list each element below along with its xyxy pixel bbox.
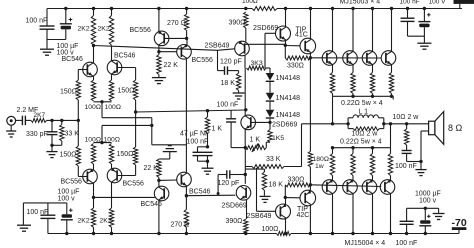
wire emitter resistor join bottom — [94, 142, 112, 144]
svg-text:100Ω: 100Ω — [105, 104, 121, 111]
label 100 v — [57, 50, 75, 57]
node bottom rail / output #4 — [389, 232, 392, 235]
node bottom rail / 100nF right — [405, 232, 408, 235]
resistor 100R Q3 emitter — [91, 144, 95, 165]
node Q7 collector / Q8 base — [157, 179, 160, 182]
node top rail / 2K2 right — [110, 7, 113, 10]
transistor MJ15003 output #4 — [381, 51, 396, 66]
wire bottom emitter bus — [333, 147, 391, 149]
ground 18K lower — [260, 196, 271, 202]
node L1 right — [382, 122, 385, 125]
node bottom bus / riser — [331, 146, 334, 149]
resistor 18K lower — [262, 172, 266, 190]
svg-text:330Ω: 330Ω — [288, 177, 305, 184]
ground feedback caps — [202, 168, 214, 174]
potentiometer 1K wiper arrow — [252, 145, 258, 152]
ground input network — [46, 152, 57, 158]
node bias collector / H1 — [244, 108, 247, 111]
wire -70 to bottom rail — [458, 230, 460, 234]
wire 1K5 top lead — [269, 122, 271, 129]
node H1 / 1K — [206, 109, 209, 112]
wire ground stem top-left — [46, 40, 48, 49]
svg-text:270 Ω: 270 Ω — [167, 20, 186, 27]
wire VAS base link — [218, 49, 235, 51]
label 150R lower-right — [117, 151, 134, 158]
wire output lower #2 emitter lead — [352, 176, 354, 181]
label 150R upper-right — [118, 88, 135, 95]
svg-text:10Ω 2 w: 10Ω 2 w — [352, 130, 379, 137]
node top rail / driver collector — [284, 7, 287, 10]
transistor Q3 BC556 input pair lower — [83, 169, 98, 184]
transistor Q8 BC546 current source lower — [177, 172, 192, 187]
wire bottom supply rail left segment — [48, 233, 277, 235]
svg-text:2SB649: 2SB649 — [205, 43, 230, 50]
wire electrolytic bottom lead — [65, 29, 67, 39]
wire VAS lower emitter to 390R — [246, 199, 248, 219]
label 10R 2w zobel — [393, 114, 420, 121]
wire output lower #4 collector to rail — [390, 194, 392, 234]
resistor 150R lower-right — [133, 147, 137, 165]
svg-text:10Ω 2 w: 10Ω 2 w — [393, 114, 420, 121]
label TIP lower — [297, 206, 308, 213]
wire Q4 top to 100R — [111, 164, 113, 169]
transistor MJ15003 output #2 — [343, 51, 358, 66]
wire zobel R to C — [406, 145, 408, 151]
wire inverted ground stem — [169, 152, 171, 159]
transistor Q2 BC546 input pair — [107, 60, 122, 75]
svg-text:1w: 1w — [315, 163, 324, 170]
wire bottom VAS base wire — [186, 194, 235, 197]
capacitor 100uF 100v bottom-left electrolytic — [61, 208, 73, 219]
label 100 nF top-left — [26, 18, 48, 25]
inductor L1 — [353, 115, 379, 118]
wire +70 stub to rail — [459, 4, 461, 9]
node TIP41C emitter / base bus — [309, 56, 312, 59]
transistor 2SB649 driver lower — [276, 204, 291, 219]
svg-text:330Ω: 330Ω — [287, 63, 304, 70]
wire Q3 collector down — [93, 183, 95, 197]
svg-text:BC546: BC546 — [189, 188, 211, 195]
wire 2K2 to Q2 top — [111, 45, 113, 61]
wire Q2 emitter to 100R — [111, 74, 113, 80]
svg-text:1N4148: 1N4148 — [276, 95, 301, 102]
label 1N4148 D1 — [276, 75, 301, 82]
wire to input ground — [51, 145, 53, 151]
node top rail / TIP41C — [309, 7, 312, 10]
label 100nF bias — [217, 101, 239, 108]
wire rail to 100nF top-right — [407, 9, 409, 19]
wire VAS emitter down — [244, 55, 246, 68]
node input A — [50, 119, 53, 122]
terminal -70 bar — [452, 227, 467, 230]
label 2K2 bottom-left — [78, 218, 90, 225]
label BC546 Q7 — [141, 201, 163, 208]
label TIP — [296, 26, 307, 33]
transistor MJ15004 output #1 — [322, 179, 337, 194]
wire 1K bottom lead — [207, 133, 209, 147]
wire cap bottoms join top-left — [47, 39, 66, 41]
resistor 0.22R emitter lower #3 — [370, 154, 374, 176]
wire base column right upper — [135, 68, 137, 81]
ground 22K top — [152, 78, 166, 84]
connector input RCA jack — [7, 116, 16, 125]
svg-text:100Ω: 100Ω — [262, 226, 279, 233]
wire 270R bottom lead — [186, 31, 188, 39]
svg-text:100 nF: 100 nF — [26, 18, 48, 25]
wire 18K to ground — [238, 91, 240, 93]
label 100nF upper small — [0, 0, 1, 1]
wire node to 330pF — [51, 120, 53, 131]
wire bottom bus riser to output — [390, 124, 392, 148]
resistor 2K2 bottom-left — [91, 208, 95, 227]
resistor 33K input — [60, 125, 64, 142]
node bottom rail / driver lower — [284, 232, 287, 235]
svg-text:1K5: 1K5 — [272, 135, 284, 142]
label 120 pF lower — [218, 180, 240, 187]
resistor 2K2 bottom-right — [109, 208, 113, 227]
label 2SD669 bias — [272, 122, 297, 129]
node input at base column — [77, 119, 80, 122]
label 100R Q4 — [104, 137, 120, 144]
label 100nF zobel — [395, 163, 417, 170]
resistor 150R upper-right — [133, 80, 137, 100]
wire jack to ground — [10, 125, 12, 131]
node bottom pair tail — [100, 141, 103, 144]
label 100 v bottom-left — [58, 195, 76, 202]
wire output #2 emitter lead — [352, 65, 354, 73]
wire ground stem top-right — [423, 36, 425, 42]
resistor 270R top — [184, 14, 188, 31]
wire bottom supply rail right segment — [291, 233, 459, 235]
label 22K bottom — [144, 165, 159, 172]
wire L1 bottom left stub — [348, 128, 353, 130]
ground input jack — [6, 131, 16, 137]
wire bottom base bus — [310, 185, 381, 187]
label 100 nF bottom-left — [27, 209, 49, 216]
wire ground stem bottom-right — [438, 208, 440, 213]
label -70 terminal — [452, 217, 467, 229]
svg-text:390Ω: 390Ω — [226, 218, 243, 225]
node input B — [60, 119, 63, 122]
resistor 10R 2w zobel — [404, 129, 408, 145]
capacitor 100nF bottom-right — [400, 221, 414, 233]
svg-text:2K2: 2K2 — [98, 26, 110, 33]
svg-text:BC556: BC556 — [192, 57, 214, 64]
node lower emitter bus #3 — [371, 146, 374, 149]
wire feedback line H1 — [136, 110, 246, 112]
wire L1 right vertical — [383, 118, 385, 129]
svg-text:150Ω: 150Ω — [60, 89, 77, 96]
wire 390R to VAS collector — [245, 28, 247, 42]
wire top pair collector feed to VAS — [94, 46, 218, 51]
wire CCS collector bus vertical — [185, 58, 187, 172]
wire 2K2 br top — [111, 182, 113, 208]
wire 100nF bias bottom corner — [231, 147, 245, 149]
terminal +70 bar (clipped) — [454, 0, 474, 4]
transistor Q6 BC556 current source — [177, 44, 192, 59]
wire driver bias vertical upper — [309, 58, 311, 152]
wire 0.22R #4 to bus — [391, 94, 393, 97]
wire bias drop to lower driver base — [256, 168, 258, 212]
wire Q4 base lead — [117, 175, 136, 177]
wire output lower #4 emitter lead — [390, 176, 392, 181]
resistor 0.22R emitter #2 — [351, 73, 355, 94]
wire output lower #1 emitter lead — [332, 176, 334, 181]
wire L1 bottom right stub — [379, 128, 383, 130]
capacitor 47uF NP — [193, 147, 203, 161]
wire base column right lower — [135, 165, 137, 176]
resistor 18K upper — [236, 73, 240, 91]
wire top base bus — [310, 57, 381, 59]
transistor 2SD669 VAS lower — [236, 186, 251, 201]
svg-text:8 Ω: 8 Ω — [448, 123, 463, 133]
wire caps bottom bus — [198, 160, 208, 162]
label 2SD669 VAS lower — [222, 202, 247, 209]
wire lower driver base lead — [257, 210, 276, 212]
wire Q6 base lead — [159, 51, 177, 53]
label 390R bottom — [226, 218, 243, 225]
wire 2K7 to node — [47, 119, 79, 121]
label 2K2 bottom-right — [100, 218, 112, 225]
capacitor 330pF — [47, 132, 58, 146]
svg-text:100Ω: 100Ω — [85, 104, 101, 111]
svg-text:1 K: 1 K — [250, 136, 261, 143]
label 330 pF — [26, 131, 48, 138]
node bottom rail / output #2 — [351, 232, 354, 235]
node bottom rail / 2K2 right — [110, 232, 113, 235]
resistor 100R bottom rail series — [277, 232, 292, 236]
resistor 270R bottom — [184, 210, 188, 228]
wire VAS lower base wire segment — [217, 194, 219, 196]
node 120pF lower / VAS collector — [244, 173, 247, 176]
ground 18K upper — [233, 93, 245, 99]
node 330pF 33K junction — [50, 144, 53, 147]
wire 0.22R #1 to bus — [332, 94, 334, 97]
svg-text:2SD669: 2SD669 — [222, 202, 247, 209]
wire output #2 collector to rail — [352, 9, 354, 52]
capacitor 120pF lower — [218, 170, 245, 179]
label 100R Q1 — [85, 104, 101, 111]
wire base column left upper — [77, 70, 79, 81]
wire electrolytic top lead bottom-left — [66, 203, 68, 214]
wire base column left middle — [77, 100, 79, 146]
svg-text:3K3: 3K3 — [251, 60, 263, 67]
wire TIP41C emitter down — [309, 53, 311, 58]
wire TIP42C emitter up — [309, 185, 311, 191]
wire zobel top lead — [406, 124, 408, 129]
wire driver emitter to 330R — [284, 45, 286, 58]
svg-text:2K2: 2K2 — [78, 218, 90, 225]
wire output #3 collector to rail — [372, 9, 374, 52]
transistor TIP42C driver lower — [300, 190, 316, 206]
wire 22K top lead — [158, 52, 160, 55]
wire base column right middle — [135, 100, 137, 147]
wire 180R to lower node — [309, 167, 311, 185]
label 2SD669 driver — [253, 25, 278, 32]
wire 18K lower to ground — [263, 190, 265, 196]
wire 18K lower top lead — [263, 169, 265, 172]
wire 1K top lead — [207, 111, 209, 117]
label BC546 Q8 — [189, 188, 211, 195]
transistor Q4 BC556 input pair lower — [107, 168, 122, 183]
wire 330pF/33K join — [52, 144, 62, 146]
svg-text:2SD669: 2SD669 — [272, 122, 297, 129]
resistor 0.22R emitter lower #4 — [388, 154, 392, 176]
capacitor 100nF bias — [226, 110, 236, 147]
label 3K3 — [251, 60, 263, 67]
wire driver emitter to TIP base — [285, 45, 300, 47]
wire L1 top left stub — [348, 117, 353, 119]
node bottom rail / 2K2 left — [92, 232, 95, 235]
node TIP42C emitter / 180R — [309, 183, 312, 186]
wire top tail line H2 — [102, 117, 152, 119]
wire 0.22R #2 to bus — [352, 94, 354, 97]
wire 120pF lower corner — [217, 175, 219, 194]
svg-text:0.22Ω 5w × 4: 0.22Ω 5w × 4 — [341, 100, 383, 107]
svg-text:22 K: 22 K — [144, 165, 159, 172]
wire output lower #2 collector to rail — [352, 194, 354, 234]
label 270R bottom — [171, 222, 190, 229]
svg-text:BC556: BC556 — [123, 181, 145, 188]
wire output line left — [302, 123, 349, 125]
node top rail / output #2 collector — [351, 7, 354, 10]
label 100R Q2 — [105, 104, 121, 111]
node 1000uF top bottom-right — [424, 207, 427, 210]
capacitor 1000uF 100V top-right electrolytic — [418, 13, 430, 27]
transistor MJ15003 output #1 — [322, 51, 337, 66]
wire tail horizontal link — [152, 144, 187, 146]
wire Q5 collector down — [158, 45, 160, 52]
wire 22K to ground — [158, 75, 160, 78]
wire 120pF to 18K — [238, 71, 240, 73]
transistor 2SB649 VAS upper — [235, 41, 250, 56]
resistor 2K2 top-left — [91, 16, 95, 46]
wire 270R bottom leads — [185, 227, 187, 233]
resistor 330R upper — [285, 56, 310, 60]
wire 33K bottom corner — [61, 141, 63, 145]
capacitor 100nF top-right — [401, 18, 415, 36]
svg-text:330 pF: 330 pF — [26, 131, 48, 138]
wire bottom rail corner up to 100nF — [47, 219, 49, 234]
node top rail / 2K2 left — [92, 7, 95, 10]
node driver emitter — [284, 44, 287, 47]
label 1K feedback — [212, 126, 223, 133]
node bottom rail / 1000uF — [424, 232, 427, 235]
wire Q8 collector to VAS base node — [185, 186, 187, 209]
wire caps ground stem — [207, 161, 209, 167]
svg-text:47 µF NP: 47 µF NP — [180, 131, 210, 138]
node bottom rail / electrolytic — [65, 232, 68, 235]
svg-text:120 pF: 120 pF — [218, 180, 240, 187]
wire speaker return vertical — [420, 131, 422, 169]
node bottom rail / Q7 — [157, 232, 160, 235]
wire Q3 base lead — [78, 176, 87, 178]
wire zobel cap corner — [407, 161, 421, 163]
resistor 100R Q2 emitter — [109, 80, 113, 101]
wire output lower #3 collector to rail — [372, 194, 374, 234]
label BC556 Q4 — [123, 181, 145, 188]
label 18K upper — [221, 80, 236, 87]
wire top emitter bus — [333, 95, 394, 97]
label 18K lower — [269, 182, 284, 189]
wire bottom tail line H3 — [102, 124, 152, 126]
wire upper driver base lead — [265, 32, 276, 34]
node output / top bus — [331, 122, 334, 125]
wire pot to 1K5 — [266, 141, 270, 143]
wire output #4 emitter lead — [391, 65, 393, 73]
svg-text:1N4148: 1N4148 — [276, 112, 301, 119]
wire ground stem bottom-left — [22, 203, 24, 225]
capacitor 2.2MF input — [22, 116, 31, 126]
wire 2K2 to Q1 top — [93, 46, 95, 64]
wire bias collector up — [244, 110, 246, 116]
svg-text:MJ15004 × 4: MJ15004 × 4 — [345, 240, 386, 247]
wire emitter bus to output node — [332, 96, 334, 124]
diode D1 1N4148 — [266, 73, 275, 81]
label 330R lower — [288, 177, 305, 184]
capacitor 120pF upper — [218, 66, 239, 75]
transistor Q1 BC546 input pair — [83, 62, 98, 77]
wire 100nF top lead bottom-right — [406, 208, 408, 221]
label BC546 Q2 — [114, 53, 136, 60]
transistor Q7 BC546 current source lower — [154, 186, 169, 201]
label 10R 2w damping — [352, 130, 379, 137]
label 33K feedback — [266, 156, 281, 163]
node 120pF tap on base wire — [217, 192, 220, 195]
wire emitter bus end stub — [392, 96, 394, 99]
svg-text:150Ω: 150Ω — [60, 152, 77, 159]
wire VAS feed corner down — [217, 50, 219, 70]
wire cap bottoms join top-right — [408, 35, 425, 37]
label L1 — [359, 109, 369, 116]
svg-text:33 K: 33 K — [65, 131, 80, 138]
resistor 22K top — [157, 55, 161, 75]
wire D2-D3 — [269, 102, 271, 110]
resistor 390R bottom — [244, 219, 248, 234]
node top rail / electrolytic right — [423, 7, 426, 10]
svg-text:2K2: 2K2 — [100, 218, 112, 225]
svg-text:18 K: 18 K — [221, 80, 236, 87]
capacitor 100nF bottom-left — [40, 203, 55, 219]
svg-text:150Ω: 150Ω — [118, 88, 135, 95]
label 100 V top right (clipped) — [429, 0, 447, 5]
transistor MJ15004 output #2 — [343, 179, 358, 194]
label 100 nF top right (clipped) — [400, 0, 420, 5]
wire rail corner down to 100nF — [46, 9, 48, 27]
node bottom rail / output #1 — [331, 232, 334, 235]
ground 22K bottom inverted — [163, 146, 177, 152]
node bottom rail / output #3 — [371, 232, 374, 235]
svg-text:100 nF: 100 nF — [396, 240, 418, 247]
wire Q6 emitter up — [186, 38, 188, 45]
wire electrolytic bottom top-right — [423, 27, 425, 36]
wire top supply rail left segment — [47, 8, 252, 10]
label 1K pot — [250, 136, 261, 143]
node driver lower emitter — [284, 196, 287, 199]
node emitter bus #2 — [351, 95, 354, 98]
wire 33K to output riser — [284, 166, 302, 168]
label 2.2 MF — [17, 107, 39, 114]
wire VAS top link — [245, 43, 285, 45]
svg-text:100 v: 100 v — [58, 195, 76, 202]
wire 1000uF top lead — [424, 208, 426, 220]
svg-text:100 nF: 100 nF — [27, 209, 49, 216]
label 22K top — [164, 62, 179, 69]
wire 1000uF bottom lead — [424, 226, 426, 234]
resistor 150R upper-left — [76, 80, 80, 100]
resistor 0.22R emitter lower #1 — [330, 154, 334, 176]
label 2SB649 VAS — [205, 43, 230, 50]
